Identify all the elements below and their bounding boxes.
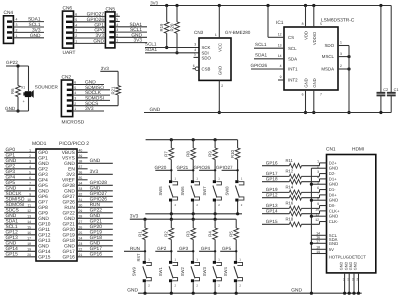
svg-text:7: 7 [320, 93, 322, 97]
junction rail R4 [214, 218, 217, 221]
svg-text:R16: R16 [286, 200, 294, 205]
svg-text:GND: GND [344, 262, 348, 271]
wire keypad column joins between rails [171, 214, 215, 219]
wire net SDA1 to CN3 pin 4 [145, 47, 199, 53]
svg-text:GND: GND [64, 189, 75, 195]
power rail 3V3 (top) [150, 1, 391, 6]
wire MOD1 pin 21 net GP16 [63, 252, 113, 261]
wire CN1 pin 10 CLK+ [262, 207, 340, 216]
resistor R9 [208, 140, 218, 181]
svg-text:GND: GND [312, 78, 317, 87]
svg-text:GND: GND [38, 161, 49, 167]
resistor R6 [10, 64, 20, 112]
node GPIO26 net label [193, 165, 216, 172]
connector CN5 (I2C header) [105, 6, 115, 48]
svg-text:GP14: GP14 [6, 246, 19, 252]
svg-text:GP21: GP21 [176, 165, 188, 170]
svg-text:1: 1 [340, 41, 342, 45]
ground GND (buzzer) [5, 106, 29, 111]
svg-text:UART: UART [63, 50, 76, 56]
svg-text:1: 1 [215, 33, 217, 37]
resistor R20 (SDA1 pullup) [169, 6, 179, 55]
connector CN4 (I2C header) [4, 10, 14, 43]
svg-text:GP2: GP2 [157, 246, 167, 251]
svg-text:R14: R14 [286, 184, 294, 189]
wire MOD1 pin 35 stub [62, 176, 88, 184]
svg-text:GPIO26: GPIO26 [193, 165, 210, 170]
svg-text:8: 8 [29, 187, 31, 191]
svg-text:GP13: GP13 [38, 238, 51, 244]
junction rail R8 [192, 138, 195, 141]
wire MOD1 pin 40 stub [62, 148, 88, 156]
svg-text:11: 11 [27, 203, 31, 207]
wire MOD1 pin 25 net GP19 [63, 230, 113, 239]
svg-text:7: 7 [317, 191, 319, 195]
svg-text:R10: R10 [230, 149, 235, 157]
svg-text:6: 6 [302, 93, 304, 97]
svg-text:9: 9 [29, 192, 31, 196]
svg-text:D2+: D2+ [329, 160, 337, 165]
svg-text:8: 8 [302, 22, 304, 26]
svg-text:GP16: GP16 [63, 255, 76, 261]
svg-text:12: 12 [278, 33, 282, 37]
switch SW5 (pushbutton) [158, 177, 178, 214]
svg-text:R9: R9 [208, 151, 213, 157]
svg-text:R12: R12 [286, 168, 294, 173]
svg-text:GP14: GP14 [266, 208, 278, 213]
wire MOD1 pin 38 net GND [64, 158, 113, 167]
svg-text:5: 5 [75, 18, 77, 22]
svg-text:5: 5 [29, 170, 31, 174]
svg-text:SDA1: SDA1 [28, 17, 41, 23]
svg-text:17: 17 [27, 236, 31, 240]
svg-text:12: 12 [27, 209, 31, 213]
wire IC1 pin 14 SDA net SDA1 [254, 53, 284, 59]
switch SW6 (pushbutton) [180, 177, 200, 214]
svg-text:6: 6 [75, 13, 77, 17]
junction rail R2 [170, 218, 173, 221]
svg-text:VCC: VCC [218, 43, 223, 52]
svg-text:3: 3 [340, 52, 342, 56]
wire CN2 pin 3 net SDMOSI [73, 96, 110, 102]
wire CN3 pin 1 VCC to 3V3 rail [215, 6, 219, 39]
wire MOD1 pin 29 net GP22 [63, 208, 113, 217]
svg-text:2: 2 [75, 34, 77, 38]
wire MOD1 pin 36 net 3V3 [66, 169, 113, 178]
wire MOD1 pin 9 net SDCLK [4, 191, 48, 200]
svg-text:SDA: SDA [288, 56, 297, 61]
svg-text:S3: S3 [352, 277, 355, 281]
svg-text:GP0: GP0 [94, 28, 104, 34]
svg-text:GP19: GP19 [63, 233, 76, 239]
svg-text:3V3: 3V3 [95, 33, 104, 39]
svg-text:GP13: GP13 [266, 203, 278, 208]
wire CN6 pin 5 net GPIO26 [74, 17, 105, 23]
svg-text:GP19: GP19 [90, 230, 103, 236]
junction 3V3 rail x=380.9 [379, 4, 382, 7]
wire MOD1 pin 5 net GP3 [4, 169, 48, 178]
wire CN6 pin 6 net GPIO27 [74, 12, 105, 18]
wire MOD1 pin 7 net GP5 [4, 180, 48, 189]
connector CN2 (microSD header) [61, 75, 84, 126]
svg-text:GP4: GP4 [6, 175, 16, 181]
resistor R5 [229, 219, 239, 261]
wire CN2 pin 1 net 3V3 [73, 106, 104, 112]
resistor R4 [208, 219, 218, 261]
svg-text:VDDIO: VDDIO [312, 31, 317, 45]
svg-text:GND: GND [131, 32, 142, 38]
svg-text:GND: GND [90, 158, 101, 164]
svg-text:GP2: GP2 [38, 167, 48, 173]
wire CN1 pin 19 HOTPLUGDETECT [311, 250, 366, 259]
wire CN1 shield pin 4 [354, 262, 361, 295]
node GP22 net label [6, 60, 29, 66]
wire CN4 pin 4 net SDA1 [13, 17, 44, 23]
module MOD1 PICO/PICO 2 (Raspberry Pi Pico) [32, 141, 89, 261]
svg-text:3V3: 3V3 [90, 169, 99, 175]
svg-text:CLK-: CLK- [329, 219, 339, 224]
svg-text:S1: S1 [343, 277, 346, 281]
svg-text:R19: R19 [159, 23, 164, 31]
switch SW9 (pushbutton) [132, 257, 152, 293]
svg-text:7: 7 [29, 181, 31, 185]
svg-text:4: 4 [16, 18, 18, 22]
svg-text:SDO: SDO [324, 43, 334, 48]
svg-text:GND: GND [38, 244, 49, 250]
wire IC1 pin 13 SCL net SCL1 [254, 42, 284, 48]
svg-text:GND: GND [349, 262, 353, 271]
resistor R21 [110, 71, 120, 105]
svg-text:SCL: SCL [288, 46, 297, 51]
wire CN1 shield pin 3 [349, 262, 356, 295]
svg-text:INT1: INT1 [288, 67, 298, 72]
wire CN2 pin 6 net GND [73, 80, 104, 86]
svg-text:GP15: GP15 [38, 255, 51, 261]
svg-text:EN: EN [68, 167, 75, 173]
svg-text:SDMOSI: SDMOSI [6, 202, 25, 208]
svg-text:GP8: GP8 [38, 205, 48, 211]
svg-text:MICROSD: MICROSD [62, 120, 85, 126]
switch SW8 (pushbutton) [224, 177, 244, 214]
connector CN6 (UART header) [63, 6, 76, 57]
svg-text:SOUNDER: SOUNDER [35, 84, 59, 89]
svg-text:GND: GND [90, 241, 101, 247]
ground rail GND (bottom) [127, 288, 361, 295]
svg-text:GND: GND [340, 262, 344, 271]
svg-text:GND: GND [85, 80, 96, 86]
ground GND label (HDMI) [291, 288, 302, 294]
svg-text:GP3: GP3 [6, 169, 16, 175]
svg-text:GND: GND [127, 288, 138, 294]
wire MOD1 pin 20 net GP15 [4, 252, 50, 261]
wire MOD1 pin 32 net GPIO27 [63, 191, 113, 200]
svg-text:GPIO28: GPIO28 [90, 180, 108, 186]
svg-text:GP21: GP21 [90, 219, 103, 225]
wire CN1 pin 3 D2- [262, 168, 336, 178]
wire MOD1 pin 13 net GND [4, 213, 49, 222]
svg-text:10: 10 [27, 198, 31, 202]
svg-text:R5: R5 [229, 231, 234, 237]
junction rail R3 [192, 218, 195, 221]
svg-text:CSB: CSB [202, 66, 211, 71]
svg-text:1: 1 [74, 107, 76, 111]
svg-text:GP26: GP26 [63, 200, 76, 206]
svg-text:GP22: GP22 [6, 60, 18, 65]
junction 3V3 rail x=305.5 [304, 4, 307, 7]
svg-text:1: 1 [16, 34, 18, 38]
svg-text:GP11: GP11 [38, 227, 50, 233]
svg-text:GP19: GP19 [266, 187, 278, 192]
svg-text:6: 6 [29, 176, 31, 180]
wire IC1 pin 4 INT1 net GP26 [251, 63, 285, 69]
svg-text:3: 3 [74, 97, 76, 101]
wire CN1 pin 1 D2+ [262, 158, 337, 168]
svg-text:GP20: GP20 [63, 227, 76, 233]
svg-text:12: 12 [315, 218, 319, 222]
svg-text:RUN: RUN [64, 205, 75, 211]
svg-text:4: 4 [74, 91, 76, 95]
svg-text:SDMISO: SDMISO [6, 197, 25, 203]
svg-text:GP13: GP13 [6, 235, 19, 241]
node RUN net label [124, 246, 146, 253]
svg-text:3: 3 [317, 170, 319, 174]
svg-text:MSDA: MSDA [321, 67, 334, 72]
svg-text:2: 2 [16, 29, 18, 33]
svg-text:GP22: GP22 [63, 211, 76, 217]
wire MOD1 pin 4 net GP2 [4, 164, 48, 173]
wire CN5 pin 6 stub [115, 12, 120, 16]
wire CN1 pin 12 CLK- [262, 216, 339, 226]
wire CN3 pin 5 SDO stub [194, 53, 200, 58]
wire CN1 pin 5 GND [311, 181, 338, 187]
svg-text:R18: R18 [286, 216, 294, 221]
svg-text:3: 3 [29, 159, 31, 163]
node GP3 net label [177, 246, 194, 253]
svg-text:GP10: GP10 [38, 222, 51, 228]
svg-text:GP16: GP16 [266, 160, 278, 165]
wire CN5 pin 2 net GND [115, 32, 147, 38]
svg-text:SDO: SDO [202, 55, 212, 60]
svg-text:1: 1 [317, 159, 319, 163]
svg-text:D1+: D1+ [329, 176, 337, 181]
svg-text:GND: GND [329, 198, 338, 203]
svg-text:6: 6 [193, 64, 195, 68]
svg-text:13: 13 [27, 214, 31, 218]
node GP2 net label [155, 246, 172, 253]
svg-text:D0+: D0+ [329, 192, 337, 197]
wire MOD1 pin 14 net SDA1 [4, 219, 50, 228]
svg-text:19: 19 [27, 247, 31, 251]
svg-text:GND: GND [90, 213, 101, 219]
svg-text:2: 2 [340, 64, 342, 68]
svg-text:GND: GND [6, 158, 17, 164]
svg-text:GP20: GP20 [90, 224, 103, 230]
svg-text:GP17: GP17 [90, 246, 103, 252]
wire MOD1 pin 22 net GP17 [63, 246, 113, 255]
IC U1 LSM6DS3TR-C (IMU) designator IC1 [276, 17, 355, 90]
svg-text:VREF: VREF [62, 178, 75, 184]
wire MOD1 pin 31 net GPIO26 [63, 197, 113, 206]
svg-text:SW5: SW5 [158, 186, 163, 196]
junction rail R7 [170, 138, 173, 141]
svg-text:6: 6 [116, 12, 118, 16]
svg-text:SCL1: SCL1 [255, 42, 267, 47]
svg-text:SW3: SW3 [202, 266, 207, 276]
resistor R3 [186, 219, 196, 261]
wire MOD1 pin 18 net GND [4, 241, 49, 250]
wire CN1 ground drop (HDMI GND pins) [310, 168, 313, 295]
junction 3V3 rail x=219.3 [218, 4, 221, 7]
svg-text:5: 5 [116, 18, 118, 22]
wire IC1 pin 5 VDDIO to 3V3 rail [314, 6, 322, 28]
svg-text:4: 4 [317, 175, 319, 179]
svg-text:CLK+: CLK+ [329, 208, 340, 213]
svg-text:GP12: GP12 [266, 192, 278, 197]
svg-text:VSYS: VSYS [62, 156, 75, 162]
svg-text:R6: R6 [10, 88, 15, 94]
svg-text:GP0: GP0 [6, 147, 16, 153]
node GPIO27 net label [216, 165, 239, 172]
svg-text:RUN: RUN [130, 246, 140, 251]
svg-text:R8: R8 [186, 151, 191, 157]
svg-text:10: 10 [315, 207, 319, 211]
svg-text:3V3: 3V3 [66, 172, 75, 178]
wire CN1 pin 9 D0- [262, 200, 336, 210]
svg-text:GP15: GP15 [6, 252, 19, 258]
svg-text:15: 15 [27, 225, 31, 229]
svg-text:GP6: GP6 [38, 194, 48, 200]
svg-text:VBUS: VBUS [62, 150, 75, 156]
svg-text:GND: GND [354, 262, 358, 271]
svg-text:GND: GND [30, 33, 41, 39]
svg-text:1: 1 [116, 39, 118, 43]
svg-text:18: 18 [27, 242, 31, 246]
resistor R1 [137, 219, 147, 261]
svg-text:3V3: 3V3 [133, 38, 142, 44]
svg-text:GP3: GP3 [38, 172, 48, 178]
wire MOD1 pin 3 net GND [4, 158, 49, 167]
svg-text:3V3: 3V3 [85, 106, 94, 112]
svg-text:SCL1: SCL1 [29, 22, 41, 28]
wire CN6 pin 1 net GND [74, 39, 105, 45]
wire IC1 pin 7 GND to ground rail [312, 90, 322, 114]
svg-text:GND: GND [6, 186, 17, 192]
svg-text:RST: RST [136, 253, 141, 262]
svg-text:CN3: CN3 [194, 30, 204, 35]
svg-text:1: 1 [29, 148, 31, 152]
svg-text:4: 4 [194, 48, 196, 52]
svg-text:GP5: GP5 [6, 180, 16, 186]
wire MOD1 pin 11 net SDMOSI [4, 202, 48, 211]
resistor R8 [186, 140, 196, 181]
resistor R10 [230, 140, 240, 181]
svg-text:GP27: GP27 [63, 194, 76, 200]
svg-text:5: 5 [74, 86, 76, 90]
wire net SCL1 to CN3 pin 3 [145, 41, 199, 47]
svg-text:SCL1: SCL1 [130, 27, 142, 33]
node GP21 net label [176, 165, 194, 172]
svg-text:SW4: SW4 [223, 266, 228, 276]
wire CN1 shield pin 2 [344, 262, 351, 295]
resistor R2 [164, 219, 174, 261]
svg-text:R21: R21 [110, 86, 115, 94]
wire IC1 pin 8 VDD to 3V3 rail [302, 6, 306, 28]
svg-text:SDCLK: SDCLK [85, 90, 102, 96]
svg-text:R3: R3 [186, 231, 191, 237]
svg-text:SW1: SW1 [158, 266, 163, 276]
svg-text:GP7: GP7 [38, 200, 48, 206]
svg-text:GND: GND [64, 161, 75, 167]
svg-text:1: 1 [75, 40, 77, 44]
switch SW2 (pushbutton) [180, 257, 200, 293]
node RST label at SW9 [136, 253, 141, 262]
wire MOD1 pin 6 net GP4 [4, 175, 48, 184]
wire IC1 pin 1 SDO to ground [338, 41, 349, 46]
wire CN1 pin 2 GND [311, 165, 338, 171]
svg-text:GP0: GP0 [38, 150, 48, 156]
wire MOD1 pin 17 net GP13 [4, 235, 50, 244]
svg-text:SDCLK: SDCLK [6, 191, 23, 197]
svg-text:SW6: SW6 [180, 186, 185, 196]
svg-text:4: 4 [29, 165, 31, 169]
svg-text:GPIO27: GPIO27 [216, 165, 233, 170]
wire MOD1 pin 23 net GND [64, 241, 113, 250]
svg-text:20: 20 [27, 253, 31, 257]
svg-text:GP3: GP3 [179, 246, 189, 251]
svg-text:R2: R2 [164, 231, 169, 237]
svg-text:MOD1: MOD1 [32, 141, 47, 147]
svg-text:GND: GND [6, 213, 17, 219]
svg-text:C2: C2 [383, 88, 388, 92]
svg-text:3V3: 3V3 [32, 28, 41, 34]
svg-text:C1: C1 [394, 88, 399, 92]
wire MOD1 pin 10 net SDMISO [4, 197, 48, 206]
svg-text:D1-: D1- [329, 187, 336, 192]
wire IC1 SDO/MSCL/MSDA ground drop [347, 46, 350, 115]
svg-text:3: 3 [116, 28, 118, 32]
svg-text:CN1: CN1 [326, 146, 336, 152]
svg-text:MSCL: MSCL [322, 54, 335, 59]
wire CN6 pin 3 net GP0 [74, 28, 105, 34]
wire CN1 pin 14 SCL [311, 232, 337, 238]
wire CN3 pin 2 GND to ground rail [218, 80, 224, 114]
wire MOD1 pin 19 net GP14 [4, 246, 50, 255]
wire MOD1 pin 33 net GND [64, 186, 113, 195]
svg-text:IC1: IC1 [276, 20, 284, 26]
svg-text:GP16: GP16 [90, 252, 103, 258]
switch SW7 (pushbutton) [202, 177, 222, 214]
svg-text:6: 6 [317, 186, 319, 190]
wire MOD1 pin 26 net GP20 [63, 224, 113, 233]
svg-text:GND: GND [304, 78, 309, 87]
junction rail R1 [143, 218, 146, 221]
svg-text:3: 3 [194, 42, 196, 46]
svg-text:X1: X1 [21, 86, 25, 90]
svg-text:GPIO26: GPIO26 [87, 17, 105, 23]
wire MOD1 pin 24 net GP18 [63, 235, 113, 244]
ground rail GND (middle) [144, 107, 391, 113]
wire CN1 pin 18 5V [311, 246, 334, 252]
wire MOD1 pin 28 net GND [64, 213, 113, 222]
svg-text:GPIO26: GPIO26 [90, 197, 108, 203]
svg-text:SW9: SW9 [132, 266, 137, 276]
svg-text:5V: 5V [329, 247, 334, 252]
svg-text:R20: R20 [169, 23, 174, 31]
svg-text:D2-: D2- [329, 171, 336, 176]
svg-text:3V3: 3V3 [150, 1, 158, 6]
svg-text:14: 14 [278, 54, 282, 58]
svg-text:GND: GND [218, 66, 223, 75]
